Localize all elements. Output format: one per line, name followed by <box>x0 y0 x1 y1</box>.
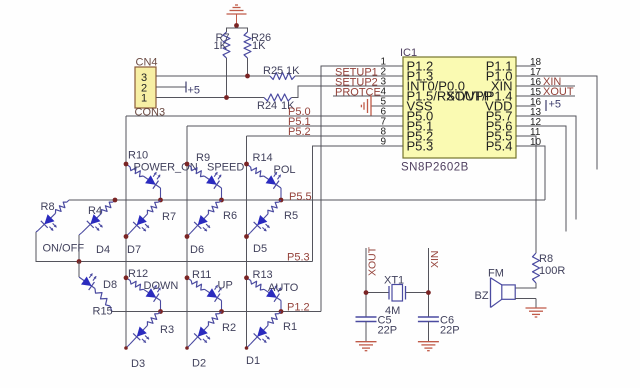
node row3 start <box>124 275 129 280</box>
wire XOUT pin15 <box>516 95 575 97</box>
svg-text:22P: 22P <box>378 325 398 337</box>
wire ON/OFF segment <box>36 232 79 262</box>
svg-text:R15: R15 <box>93 306 113 318</box>
svg-text:POL: POL <box>274 164 296 176</box>
svg-text:1K: 1K <box>214 40 228 52</box>
wire column P5.0 <box>125 116 127 348</box>
op IC U1 SN8P2602B body <box>403 57 516 158</box>
svg-text:D4: D4 <box>96 244 110 256</box>
node row1 end <box>219 198 224 203</box>
pin 18 stub <box>516 65 536 67</box>
svg-text:R5: R5 <box>284 210 298 222</box>
resistor R11 <box>187 278 191 281</box>
node row1 end <box>279 198 284 203</box>
svg-text:1: 1 <box>141 93 147 105</box>
ground VSS pin5 <box>371 105 403 107</box>
pin 5 stub <box>382 105 403 107</box>
svg-text:XOUT: XOUT <box>367 246 379 276</box>
wire R8 to buzzer <box>515 283 536 288</box>
pin 12 stub <box>516 125 536 127</box>
node row1 start <box>244 162 249 167</box>
resistor R12 <box>126 278 130 281</box>
pin 2 stub <box>382 75 403 77</box>
pin 11 stub <box>516 135 536 137</box>
wire column P5.1 <box>186 126 188 348</box>
svg-text:R11: R11 <box>192 269 211 281</box>
ground under C6 <box>418 341 439 343</box>
svg-text:ON/OFF: ON/OFF <box>43 243 85 255</box>
capacitor C6 <box>418 316 439 318</box>
svg-text:D1: D1 <box>246 355 260 367</box>
wire P1.2 from pin1 <box>321 66 382 312</box>
svg-text:SN8P2602B: SN8P2602B <box>401 162 469 174</box>
wire D4 drop <box>78 235 80 262</box>
resistor R3 row4 <box>158 312 160 314</box>
pin 9 stub <box>382 145 403 147</box>
resistor R25 <box>270 73 295 80</box>
svg-text:AUTO: AUTO <box>268 282 299 294</box>
wire CN4 pin1 to R24 <box>156 97 264 99</box>
resistor R14 <box>247 164 251 167</box>
resistor R6 row2 <box>219 200 221 202</box>
LED D8 chain <box>78 262 80 278</box>
svg-text:P5.5: P5.5 <box>289 191 312 203</box>
wire PROTCE to IC pin4 <box>333 95 403 97</box>
node top junction <box>234 23 239 28</box>
svg-text:BZ: BZ <box>475 290 489 302</box>
svg-text:+5: +5 <box>549 99 562 111</box>
resistor R7 row2 <box>158 200 160 202</box>
resistor R13 <box>247 278 251 281</box>
ground buzzer <box>526 307 547 309</box>
svg-text:P1.2: P1.2 <box>287 302 310 314</box>
svg-text:XOUT: XOUT <box>543 86 574 98</box>
node R4 start <box>113 198 118 203</box>
svg-text:CON3: CON3 <box>135 107 166 119</box>
wire P5.5 pin11 to R8 <box>516 136 536 253</box>
svg-text:R1: R1 <box>283 321 297 333</box>
node row4 end <box>245 346 249 350</box>
pin 3 stub <box>382 85 403 87</box>
svg-text:R6: R6 <box>223 210 237 222</box>
power +5 CN4 pin2 <box>156 86 186 88</box>
node row1 start <box>185 162 190 167</box>
svg-text:IC1: IC1 <box>400 47 417 59</box>
wire XIN pin16 <box>516 85 575 87</box>
wire R7 lead <box>226 58 228 98</box>
svg-text:XT1: XT1 <box>384 275 404 287</box>
svg-text:D8: D8 <box>103 279 117 291</box>
node row3 end <box>219 309 224 314</box>
wire P5.1 rail <box>187 125 382 127</box>
svg-text:R4: R4 <box>88 205 102 217</box>
svg-text:P5.2: P5.2 <box>288 126 311 138</box>
svg-text:P5.3: P5.3 <box>407 139 434 154</box>
wire P5.0 rail <box>126 115 382 117</box>
svg-text:D7: D7 <box>127 244 141 256</box>
crystal XT1 <box>366 292 389 294</box>
power +5 VDD pin14 <box>545 100 547 111</box>
connector CN4 <box>135 67 156 108</box>
svg-text:DOWN: DOWN <box>144 280 179 292</box>
svg-text:FM: FM <box>488 268 504 280</box>
resistor R5 row2 <box>279 200 281 202</box>
resistor R4 chain <box>113 200 115 202</box>
svg-text:P5.3: P5.3 <box>287 252 310 264</box>
pin 17 stub <box>516 75 536 77</box>
node row2 end <box>244 234 249 239</box>
node R26 junction <box>245 74 250 79</box>
node row4 end <box>124 346 128 350</box>
svg-text:CN4: CN4 <box>136 57 158 69</box>
svg-text:P5.4: P5.4 <box>486 139 513 154</box>
wire column P5.2 <box>246 136 248 348</box>
svg-text:R8: R8 <box>41 201 55 213</box>
svg-text:R10: R10 <box>128 150 148 162</box>
node XOUT junction <box>364 290 369 295</box>
wire P5.2 rail <box>247 135 383 137</box>
svg-text:1K: 1K <box>252 40 266 52</box>
svg-text:R24: R24 <box>257 100 277 112</box>
pin 4 stub <box>382 95 403 97</box>
svg-text:D5: D5 <box>253 243 267 255</box>
node row4 end <box>185 346 189 350</box>
wire R25 to IC pin2 <box>295 75 403 77</box>
node row3 end <box>279 309 284 314</box>
svg-text:XIN: XIN <box>429 250 441 268</box>
pin 15 stub <box>516 95 536 97</box>
svg-text:R2: R2 <box>222 322 236 334</box>
svg-text:D2: D2 <box>192 358 206 370</box>
wire XIN stub <box>427 248 429 317</box>
resistor R10 <box>126 164 130 167</box>
resistor R2 row4 <box>219 312 221 314</box>
buzzer BZ <box>490 278 492 308</box>
resistor R24 <box>264 94 292 101</box>
svg-text:R8: R8 <box>539 253 553 265</box>
wire pullup bracket <box>227 28 248 32</box>
svg-text:D3: D3 <box>131 358 145 370</box>
node ONOFF junction <box>77 259 82 264</box>
svg-text:+5: +5 <box>188 85 201 97</box>
wire P5.7 pin13 <box>516 116 576 219</box>
node row2 end <box>124 234 129 239</box>
svg-text:1K: 1K <box>286 65 300 77</box>
resistor R9 <box>187 164 191 167</box>
node row1 end <box>158 198 163 203</box>
wire R26 lead <box>247 58 249 76</box>
node row1 start <box>124 162 129 167</box>
wire P5.5 rail <box>69 199 545 201</box>
svg-text:PROTCE: PROTCE <box>335 87 381 99</box>
wire SETUP1 row CN4 pin3 to R25 <box>156 75 270 77</box>
wire P5.3 from pin9 <box>313 146 383 262</box>
pin 16 stub <box>516 85 536 87</box>
svg-text:R13: R13 <box>253 269 273 281</box>
resistor R1 row4 <box>279 312 281 314</box>
pin 1 stub <box>382 65 403 67</box>
wire P1.0 pin17 <box>516 76 597 169</box>
wire P5.3 rail <box>79 261 313 263</box>
svg-text:R3: R3 <box>160 324 174 336</box>
node R7 junction <box>224 95 229 100</box>
node row2 end <box>185 234 190 239</box>
resistor R7 <box>223 32 230 58</box>
pin 10 stub <box>516 145 536 147</box>
power symbol +V top <box>227 13 247 15</box>
wire P5.4 pin10 to rail <box>516 146 545 200</box>
node row3 end <box>158 309 163 314</box>
svg-text:R25: R25 <box>263 65 283 77</box>
pin 13 stub <box>516 115 536 117</box>
resistor R8 100R <box>533 253 540 283</box>
wire P5.6 pin12 <box>516 126 566 232</box>
pin 6 stub <box>382 115 403 117</box>
node row3 start <box>244 275 249 280</box>
resistor R8 chain ON/OFF <box>67 200 69 202</box>
resistor R26 <box>244 32 251 58</box>
svg-text:UP: UP <box>218 280 233 292</box>
pin 7 stub <box>382 125 403 127</box>
svg-text:D6: D6 <box>190 244 204 256</box>
svg-text:R14: R14 <box>253 152 273 164</box>
wire P1.1 pin18 <box>516 65 531 67</box>
svg-text:22P: 22P <box>440 325 460 337</box>
capacitor C5 <box>356 316 377 318</box>
svg-text:SPEED: SPEED <box>207 162 244 174</box>
wire P1.2 rail <box>112 311 321 313</box>
svg-text:R12: R12 <box>128 268 148 280</box>
node row3 start <box>185 275 190 280</box>
pin 16 stub <box>516 105 536 107</box>
wire buzzer bottom <box>515 299 536 308</box>
pin 8 stub <box>382 135 403 137</box>
wire XOUT stub <box>365 248 367 317</box>
node XIN junction <box>426 290 431 295</box>
svg-text:100R: 100R <box>539 265 565 277</box>
wire R24 up to IC pin3 SETUP2 row <box>292 86 404 98</box>
svg-text:R7: R7 <box>162 211 176 223</box>
ground under C5 <box>356 341 377 343</box>
